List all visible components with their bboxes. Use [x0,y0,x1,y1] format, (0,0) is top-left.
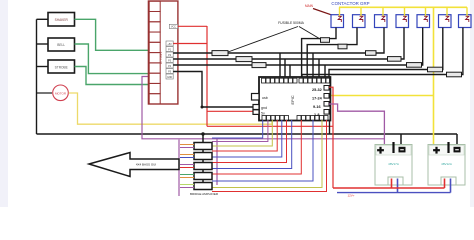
svg-text:12V+: 12V+ [347,193,354,197]
contactor K2 [353,7,366,27]
svg-text:9-16: 9-16 [313,105,321,109]
amplifier A2 [194,153,212,160]
wire: amp feed 4 [212,120,277,151]
svg-text:EPIC: EPIC [290,95,295,104]
wire: black ladder gnd wire [173,72,256,108]
svg-text:MAIN: MAIN [305,4,314,8]
contactor K1 [331,7,344,27]
svg-text:GND: GND [167,76,173,79]
wire: green STROBE to terminal block [75,67,149,85]
wire: purple IC 9-16 to battery1 plus [329,104,384,145]
wire: purple branch left of amplifiers [178,140,180,196]
terminal pin labels [166,41,173,79]
amplifier A4 [194,173,212,180]
svg-text:17-24: 17-24 [312,97,323,101]
IC right pin column [324,86,329,115]
wire: red 12V bus [333,187,445,189]
battery B2 [428,142,465,193]
wire: black IC to ground bus [329,121,331,135]
wire: stub to STROBE [37,66,49,68]
wire: yellow drop to battery 2 and IC [433,7,435,144]
contactor K4 [396,7,409,27]
svg-text:48V12A: 48V12A [441,162,452,166]
amplifier stubs left [180,145,194,188]
svg-text:FUSIBLE 500MA: FUSIBLE 500MA [278,21,305,25]
wire: ground drops to battery minus [401,134,457,146]
wire: contactor K4 bus line with fuses [173,28,404,79]
wire: yellow motor wire [69,93,272,124]
wire: contactor K5 bus line with fuses [173,28,423,79]
svg-text:5v: 5v [261,112,265,116]
wire: amp feed 3 [212,120,272,146]
IC right labels [312,88,323,117]
amplifier chain vertical link [202,134,204,183]
wire: purple drop right of amplifiers [216,139,218,185]
contactor K6 [439,7,452,27]
IC bottom pin row [262,116,328,121]
IC usb port [252,94,268,101]
IC gnd pin [253,105,267,111]
wire: amp feed 6 [212,120,287,163]
wire: red 5v distribution [173,26,333,126]
terminal block top-right pin box [169,24,177,28]
contactor K5 [417,7,430,27]
box STROBE [48,60,75,73]
motor circle [53,85,69,101]
box BELL [48,38,75,51]
wire: amp feed 9 [212,120,313,181]
wire: amp feed 5 [212,120,282,157]
amplifier A1 [194,143,212,150]
svg-text:BRIDGE AMPLIFIER: BRIDGE AMPLIFIER [190,192,219,196]
box SHAKER [48,13,75,27]
wire: contactor K2 to IC with fuse [307,28,357,79]
IC top pin row group 1 [262,78,298,83]
wire: green SHAKER to terminal block [75,19,149,50]
svg-text:+5V: +5V [167,43,172,46]
wire: amp feed 10 [212,120,322,188]
IC 5v pin [253,110,265,116]
IC U1 main board [259,77,330,121]
wire: amp feed 7 [212,120,292,169]
wire: purple terminal to amplifier [142,77,384,139]
wire: green BELL to terminal block [75,44,149,74]
svg-text:48V17A: 48V17A [388,162,399,166]
contactor K7 [459,7,472,27]
wire: amp feed 1 [212,120,263,138]
wire: stub to BELL [37,43,49,45]
wire: amp feed 2 [212,120,268,142]
svg-text:4X4 BASS GUI: 4X4 BASS GUI [136,163,157,167]
wire: contactor K1 to IC with fuse [302,28,336,79]
svg-text:25-32: 25-32 [312,88,322,92]
wire: contactor K3 bus line with fuses [173,28,384,79]
svg-text:MOTOR: MOTOR [55,92,67,96]
contactor K3 [375,7,388,27]
battery B1 [375,142,412,193]
IC top pin row group 2 [299,78,330,83]
amplifier A5 [194,183,212,190]
wire: red IC 25-32 to battery bus [329,87,333,188]
wire: stub to SHAKER [37,18,49,20]
svg-text:SHAKER: SHAKER [55,18,69,22]
wire: stub to motor [37,92,53,94]
label MAIN with arrow [305,4,337,18]
annotation FUSIBLE 500MA [228,21,321,52]
svg-text:CONTACTOR GRP: CONTACTOR GRP [331,1,369,6]
svg-text:LPT PINS: LPT PINS [159,52,163,65]
big arrow 4X4 BASS GUI [89,153,179,177]
amplifier A3 [194,163,212,170]
terminal block TB1 [148,1,178,104]
svg-text:VCC: VCC [171,26,176,29]
wire: blue bus [337,192,451,194]
right margin band [470,0,474,207]
svg-text:1-8: 1-8 [314,113,320,117]
wire: bottom ground bus [37,133,458,135]
svg-text:gnd: gnd [261,106,267,110]
svg-text:STROBE: STROBE [55,65,68,69]
wire: yellow IC pin 17-24 [326,95,434,97]
wire: contactor K7 to IC with fuse [302,28,463,79]
wire: left black bus [36,19,38,134]
wire: yellow contactor bus [339,6,467,8]
svg-text:usb: usb [262,96,268,100]
left margin band [0,0,8,207]
wire: amp feed 11 [212,120,327,192]
svg-text:BELL: BELL [57,43,65,47]
wire: contactor K6 to IC with fuse [329,28,443,79]
wire: amp feed 8 [212,120,301,174]
